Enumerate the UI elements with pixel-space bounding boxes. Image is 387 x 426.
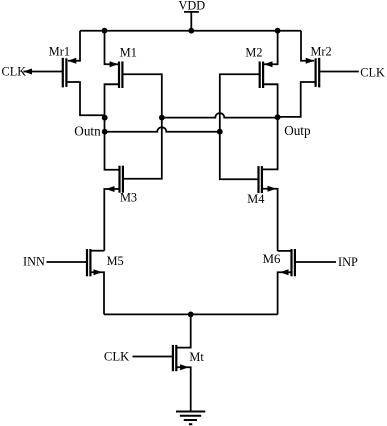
svg-text:Outn: Outn	[74, 124, 101, 139]
wire M2 gate / M4 gate cross-couple vertical B	[220, 74, 259, 179]
junction dot rail-M2 source	[275, 28, 281, 34]
svg-text:CLK: CLK	[104, 349, 130, 363]
VDD terminal tick	[184, 11, 199, 13]
junction dot Outn-H2	[102, 129, 108, 135]
wire CLK to Mt gate	[133, 356, 173, 358]
wire CLK to Mr1 gate	[24, 71, 63, 73]
transistor Mr2	[278, 31, 320, 117]
svg-text:CLK: CLK	[360, 65, 385, 79]
svg-text:Mt: Mt	[189, 350, 204, 364]
svg-text:M6: M6	[263, 252, 281, 266]
wire Outn column M1 drain to M3 drain	[105, 84, 119, 170]
wire VDD top rail	[80, 30, 301, 32]
wire tail rail	[104, 313, 278, 315]
transistor Mr1	[63, 31, 105, 116]
junction dot B-H2	[217, 129, 223, 135]
svg-text:INP: INP	[338, 255, 358, 269]
junction dot Outn jog	[102, 115, 108, 121]
transistor M3	[104, 166, 123, 251]
svg-text:Mr2: Mr2	[311, 44, 332, 58]
ground	[176, 412, 205, 425]
wire INP to M6 gate	[295, 261, 336, 263]
svg-text:VDD: VDD	[179, 0, 206, 13]
wire Mr2 gate to CLK	[319, 71, 359, 73]
wire INN to M5 gate	[47, 261, 88, 263]
wire H1 cross-couple A to Outp (hop over B)	[162, 113, 278, 118]
svg-text:M3: M3	[120, 190, 137, 204]
wire Outp column M2 drain to M4 drain	[262, 84, 277, 169]
wire H2 Outn to B (hop over A)	[105, 127, 220, 132]
svg-text:CLK: CLK	[2, 65, 27, 79]
svg-text:M4: M4	[247, 192, 264, 206]
transistor M2	[260, 31, 278, 88]
svg-text:Mr1: Mr1	[49, 44, 70, 58]
wire VDD lead	[190, 12, 192, 31]
junction dot tail-Mt	[188, 312, 194, 318]
svg-text:M1: M1	[120, 45, 137, 59]
svg-text:Outp: Outp	[284, 123, 311, 138]
transistor M1	[105, 31, 123, 88]
svg-text:INN: INN	[23, 254, 45, 268]
transistor M4	[259, 166, 278, 251]
junction dot rail-M1 source	[102, 28, 108, 34]
svg-text:M2: M2	[245, 45, 262, 59]
transistor M6	[278, 249, 295, 314]
junction dot Outp	[275, 114, 281, 120]
wire M1 gate / M3 gate cross-couple vertical A	[123, 74, 162, 179]
transistor Mt	[173, 314, 191, 411]
junction dot A-H1	[159, 115, 165, 121]
transistor M5	[87, 249, 104, 314]
svg-text:M5: M5	[107, 254, 124, 268]
arrowhead CLK left	[23, 69, 32, 75]
junction dot VDD-rail	[188, 28, 194, 34]
